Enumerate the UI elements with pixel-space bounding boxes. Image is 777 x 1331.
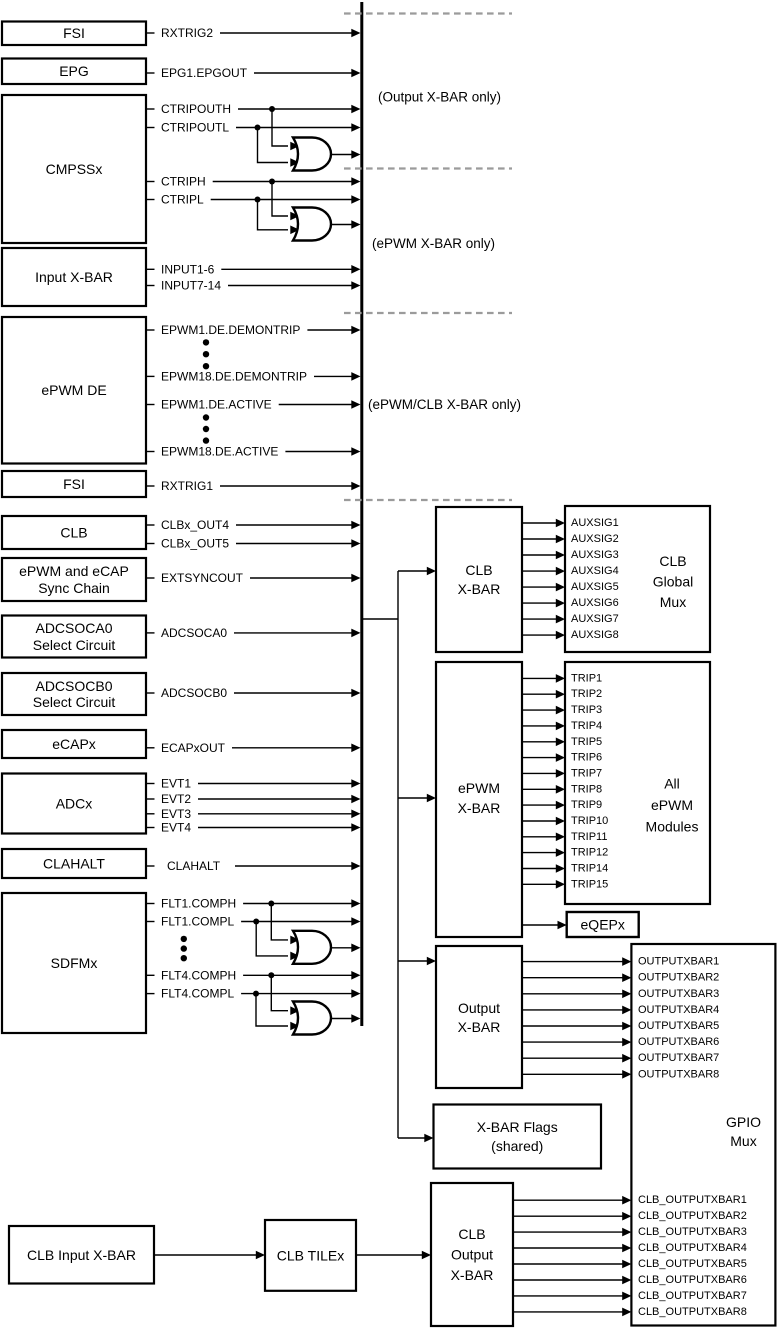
block CLAHALT (2, 849, 146, 878)
svg-text:X-BAR Flags: X-BAR Flags (477, 1119, 558, 1135)
svg-text:TRIP9: TRIP9 (571, 799, 602, 811)
signal EVT4 (146, 821, 361, 835)
block FSI (top) (2, 22, 146, 46)
svg-text:X-BAR: X-BAR (458, 800, 501, 816)
svg-text:AUXSIG3: AUXSIG3 (571, 549, 619, 561)
label TRIP10 (571, 815, 608, 827)
label CLB_OUTPUTXBAR2 (638, 1210, 747, 1222)
label TRIP5 (571, 736, 602, 748)
svg-text:CLB_OUTPUTXBAR8: CLB_OUTPUTXBAR8 (638, 1306, 747, 1318)
svg-text:TRIP3: TRIP3 (571, 704, 602, 716)
branch vertical line (397, 571, 399, 1138)
label OUTPUTXBAR7 (638, 1052, 719, 1064)
svg-text:Input X-BAR: Input X-BAR (35, 269, 113, 285)
label CLB_OUTPUTXBAR5 (638, 1258, 747, 1270)
svg-text:EPWM18.DE.ACTIVE: EPWM18.DE.ACTIVE (161, 445, 278, 459)
signal ADCSOCB0 (146, 686, 361, 700)
wire ePWM X-BAR to TRIP1 (522, 674, 565, 683)
block FSI (second) (2, 471, 146, 497)
signal EVT3 (146, 807, 361, 821)
dashed separator 3 (344, 312, 512, 314)
signal EXTSYNCOUT (146, 571, 361, 585)
wire CLB TILEx to CLB Output X-BAR (356, 1251, 431, 1260)
junction on CTRIPH (269, 179, 275, 185)
signal ADCSOCA0 (146, 626, 361, 640)
wire branch to ePWM X-BAR (398, 794, 436, 803)
svg-text:TRIP12: TRIP12 (571, 847, 608, 859)
label TRIP15 (571, 878, 608, 890)
wire ePWM X-BAR to TRIP8 (522, 785, 565, 794)
label TRIP12 (571, 847, 608, 859)
svg-text:CLB_OUTPUTXBAR2: CLB_OUTPUTXBAR2 (638, 1210, 747, 1222)
wire CLB Output X-BAR to CLB_OUTPUTXBAR5 (513, 1260, 631, 1269)
svg-text:(shared): (shared) (491, 1138, 543, 1154)
wire Output X-BAR to OUTPUTXBAR4 (522, 1006, 631, 1015)
svg-text:FSI: FSI (63, 476, 85, 492)
svg-text:CLB Input X-BAR: CLB Input X-BAR (27, 1247, 136, 1263)
label OUTPUTXBAR5 (638, 1020, 719, 1032)
svg-text:CLB: CLB (659, 553, 686, 569)
svg-text:Mux: Mux (660, 594, 686, 610)
signal FLT1.COMPL (146, 915, 361, 929)
wire ePWM X-BAR to TRIP5 (522, 738, 565, 747)
OR gate 1 (CTRIPOUT) (293, 138, 331, 171)
signal RXTRIG2 (146, 26, 361, 40)
svg-text:CLB_OUTPUTXBAR6: CLB_OUTPUTXBAR6 (638, 1274, 747, 1286)
svg-text:AUXSIG2: AUXSIG2 (571, 533, 619, 545)
wire Output X-BAR to OUTPUTXBAR2 (522, 973, 631, 982)
block ADCx (2, 774, 146, 834)
svg-text:TRIP11: TRIP11 (571, 831, 607, 843)
signal ECAPxOUT (146, 741, 361, 755)
label TRIP11 (571, 831, 607, 843)
block ADCSOCB0 Select Circuit (2, 673, 146, 715)
ellipsis dots (SDFM filters) (181, 936, 187, 962)
wire CTRIPOUTH junction to OR1 input A (272, 109, 300, 150)
dashed separator 2 (344, 167, 512, 169)
wire ePWM X-BAR to TRIP10 (522, 817, 565, 826)
signal RXTRIG1 (146, 479, 361, 493)
block CLB (2, 516, 146, 549)
wire OR2 output to bus (331, 220, 361, 229)
signal FLT4.COMPL (146, 987, 361, 1001)
junction on CTRIPOUTL (255, 125, 261, 131)
label TRIP4 (571, 720, 602, 732)
svg-text:Mux: Mux (730, 1133, 756, 1149)
svg-text:(ePWM/CLB X-BAR only): (ePWM/CLB X-BAR only) (368, 397, 521, 412)
svg-text:SDFMx: SDFMx (51, 955, 98, 971)
block eQEPx (567, 912, 639, 937)
label TRIP9 (571, 799, 602, 811)
wire CTRIPOUTL junction to OR1 input B (258, 128, 300, 167)
label TRIP8 (571, 783, 602, 795)
wire CLB Output X-BAR to CLB_OUTPUTXBAR8 (513, 1308, 631, 1317)
label AUXSIG2 (571, 533, 619, 545)
svg-text:EXTSYNCOUT: EXTSYNCOUT (161, 571, 244, 585)
wire CLB X-BAR to AUXSIG2 (522, 535, 565, 544)
annotation (ePWM X-BAR only) (372, 236, 495, 251)
svg-text:ADCx: ADCx (56, 796, 93, 812)
label OUTPUTXBAR2 (638, 972, 719, 984)
signal EPWM1.DE.DEMONTRIP (146, 323, 361, 337)
wire FLT1.COMPH junction to OR3 input A (271, 904, 299, 945)
label AUXSIG8 (571, 629, 619, 641)
svg-text:Global: Global (653, 574, 693, 590)
svg-text:Sync Chain: Sync Chain (38, 580, 110, 596)
signal EVT2 (146, 792, 361, 806)
block ePWM X-BAR (436, 662, 522, 937)
svg-text:AUXSIG6: AUXSIG6 (571, 597, 619, 609)
svg-text:CLB_OUTPUTXBAR3: CLB_OUTPUTXBAR3 (638, 1226, 747, 1238)
block Input X-BAR (2, 248, 146, 306)
svg-text:EVT2: EVT2 (161, 792, 191, 806)
signal EPG1.EPGOUT (146, 66, 361, 80)
svg-text:FSI: FSI (63, 25, 85, 41)
junction on FLT1.COMPH (268, 901, 274, 907)
svg-text:AUXSIG8: AUXSIG8 (571, 629, 619, 641)
svg-text:TRIP4: TRIP4 (571, 720, 602, 732)
signal EPWM1.DE.ACTIVE (146, 398, 361, 412)
svg-text:OUTPUTXBAR8: OUTPUTXBAR8 (638, 1068, 719, 1080)
wire branch to Output X-BAR (398, 957, 436, 966)
label AUXSIG5 (571, 581, 619, 593)
svg-text:FLT4.COMPH: FLT4.COMPH (161, 968, 236, 982)
block CLB TILEx (265, 1220, 356, 1291)
svg-text:EPWM1.DE.DEMONTRIP: EPWM1.DE.DEMONTRIP (161, 323, 300, 337)
wire OR4 output to bus (331, 1014, 361, 1023)
svg-text:CTRIPOUTL: CTRIPOUTL (161, 121, 229, 135)
wire Output X-BAR to OUTPUTXBAR8 (522, 1070, 631, 1079)
svg-text:OUTPUTXBAR6: OUTPUTXBAR6 (638, 1036, 719, 1048)
svg-text:EPG: EPG (59, 63, 89, 79)
svg-text:TRIP15: TRIP15 (571, 878, 608, 890)
wire CLB Output X-BAR to CLB_OUTPUTXBAR3 (513, 1228, 631, 1237)
signal CTRIPH (146, 175, 361, 189)
wire branch to CLB X-BAR (398, 567, 436, 576)
svg-text:ePWM and eCAP: ePWM and eCAP (19, 563, 129, 579)
svg-text:CLB_OUTPUTXBAR4: CLB_OUTPUTXBAR4 (638, 1242, 747, 1254)
label CLB_OUTPUTXBAR7 (638, 1290, 747, 1302)
svg-text:FLT1.COMPH: FLT1.COMPH (161, 897, 236, 911)
svg-text:CLAHALT: CLAHALT (43, 856, 105, 872)
OR gate 4 (FLT4) (293, 1002, 331, 1035)
svg-text:CLB TILEx: CLB TILEx (277, 1247, 344, 1263)
label AUXSIG1 (571, 517, 619, 529)
signal EPWM18.DE.DEMONTRIP (146, 369, 361, 383)
block ADCSOCA0 Select Circuit (2, 616, 146, 658)
svg-text:eQEPx: eQEPx (581, 917, 625, 933)
block All ePWM Modules (565, 662, 710, 904)
svg-text:(ePWM X-BAR only): (ePWM X-BAR only) (372, 236, 495, 251)
svg-text:OUTPUTXBAR3: OUTPUTXBAR3 (638, 988, 719, 1000)
svg-text:CTRIPH: CTRIPH (161, 175, 206, 189)
block eCAPx (2, 730, 146, 758)
wire ePWM X-BAR to TRIP9 (522, 801, 565, 810)
label CLB_OUTPUTXBAR1 (638, 1194, 747, 1206)
block X-BAR Flags (shared) (434, 1105, 602, 1169)
svg-text:CLB: CLB (60, 525, 87, 541)
wire CLB X-BAR to AUXSIG7 (522, 615, 565, 624)
svg-text:(Output X-BAR only): (Output X-BAR only) (378, 90, 501, 105)
svg-text:X-BAR: X-BAR (451, 1267, 494, 1283)
wire CLB X-BAR to AUXSIG5 (522, 583, 565, 592)
svg-text:ePWM: ePWM (651, 797, 693, 813)
annotation (ePWM/CLB X-BAR only) (368, 397, 521, 412)
wire ePWM X-BAR to TRIP12 (522, 848, 565, 857)
wire ePWM X-BAR to TRIP14 (522, 864, 565, 873)
svg-text:RXTRIG2: RXTRIG2 (161, 26, 213, 40)
svg-text:Select Circuit: Select Circuit (33, 637, 116, 653)
svg-text:OUTPUTXBAR5: OUTPUTXBAR5 (638, 1020, 719, 1032)
block ePWM DE (2, 317, 146, 464)
block CMPSSx (2, 95, 146, 243)
svg-text:OUTPUTXBAR4: OUTPUTXBAR4 (638, 1004, 719, 1016)
label TRIP14 (571, 863, 608, 875)
input signal bus (vertical trunk) (360, 2, 363, 1026)
svg-text:EVT1: EVT1 (161, 777, 191, 791)
block CLB Global Mux (565, 506, 710, 652)
wire ePWM X-BAR to TRIP3 (522, 706, 565, 715)
wire ePWM X-BAR to TRIP11 (522, 833, 565, 842)
wire CTRIPL junction to OR2 input B (258, 200, 300, 235)
signal CLBx_OUT5 (146, 537, 361, 551)
svg-text:OUTPUTXBAR1: OUTPUTXBAR1 (638, 956, 719, 968)
signal EPWM18.DE.ACTIVE (146, 445, 361, 459)
label AUXSIG4 (571, 565, 619, 577)
svg-text:AUXSIG1: AUXSIG1 (571, 517, 619, 529)
label OUTPUTXBAR6 (638, 1036, 719, 1048)
svg-text:ePWM: ePWM (458, 780, 500, 796)
svg-text:eCAPx: eCAPx (52, 736, 96, 752)
wire ePWM X-BAR to TRIP15 (522, 880, 565, 889)
wire Output X-BAR to OUTPUTXBAR1 (522, 957, 631, 966)
wire branch to X-BAR Flags (398, 1134, 434, 1143)
wire ePWM X-BAR to TRIP7 (522, 769, 565, 778)
svg-text:AUXSIG5: AUXSIG5 (571, 581, 619, 593)
wire ePWM X-BAR to TRIP2 (522, 690, 565, 699)
svg-text:Modules: Modules (646, 819, 699, 835)
svg-text:TRIP1: TRIP1 (571, 672, 602, 684)
block CLB Output X-BAR (431, 1183, 513, 1326)
OR gate 3 (FLT1) (293, 931, 331, 964)
svg-text:Output: Output (451, 1247, 493, 1263)
signal CTRIPOUTL (146, 121, 361, 135)
wire Output X-BAR to OUTPUTXBAR5 (522, 1022, 631, 1031)
ellipsis dots (DEMONTRIP group) (203, 339, 209, 369)
label TRIP3 (571, 704, 602, 716)
label OUTPUTXBAR4 (638, 1004, 719, 1016)
wire bus tap to branch line (363, 618, 398, 620)
svg-text:RXTRIG1: RXTRIG1 (161, 479, 213, 493)
wire CTRIPH junction to OR2 input A (272, 182, 300, 221)
svg-text:INPUT7-14: INPUT7-14 (161, 279, 221, 293)
svg-text:CLB_OUTPUTXBAR1: CLB_OUTPUTXBAR1 (638, 1194, 747, 1206)
label AUXSIG7 (571, 613, 619, 625)
svg-text:All: All (664, 776, 680, 792)
signal FLT4.COMPH (146, 968, 361, 982)
wire ePWM X-BAR to eQEPx (522, 921, 567, 930)
wire OR3 output to bus (331, 944, 361, 953)
wire CLB X-BAR to AUXSIG4 (522, 567, 565, 576)
svg-text:FLT4.COMPL: FLT4.COMPL (161, 987, 234, 1001)
svg-text:X-BAR: X-BAR (458, 581, 501, 597)
svg-text:AUXSIG7: AUXSIG7 (571, 613, 619, 625)
label OUTPUTXBAR3 (638, 988, 719, 1000)
svg-text:TRIP7: TRIP7 (571, 767, 602, 779)
svg-text:ADCSOCB0: ADCSOCB0 (35, 678, 112, 694)
svg-text:X-BAR: X-BAR (458, 1019, 501, 1035)
svg-text:EVT3: EVT3 (161, 807, 191, 821)
svg-text:FLT1.COMPL: FLT1.COMPL (161, 915, 234, 929)
svg-text:GPIO: GPIO (726, 1114, 761, 1130)
wire CLB Output X-BAR to CLB_OUTPUTXBAR1 (513, 1196, 631, 1205)
wire CLB X-BAR to AUXSIG1 (522, 519, 565, 528)
wire CLB Output X-BAR to CLB_OUTPUTXBAR7 (513, 1292, 631, 1301)
OR gate 2 (CTRIP) (293, 208, 331, 241)
label TRIP1 (571, 672, 602, 684)
svg-text:CTRIPOUTH: CTRIPOUTH (161, 102, 231, 116)
dashed separator 1 (344, 12, 512, 14)
block Output X-BAR (436, 946, 522, 1088)
wire CLB Input X-BAR to CLB TILEx (154, 1251, 265, 1260)
svg-text:TRIP2: TRIP2 (571, 688, 602, 700)
svg-text:ADCSOCB0: ADCSOCB0 (161, 686, 227, 700)
wire CLB Output X-BAR to CLB_OUTPUTXBAR2 (513, 1212, 631, 1221)
wire FLT4.COMPH junction to OR4 input A (271, 975, 299, 1015)
wire CLB X-BAR to AUXSIG8 (522, 631, 565, 640)
signal CLAHALT (146, 859, 361, 873)
signal INPUT1-6 (146, 262, 361, 276)
wire CLB X-BAR to AUXSIG6 (522, 599, 565, 608)
wire Output X-BAR to OUTPUTXBAR3 (522, 990, 631, 999)
block CLB Input X-BAR (9, 1226, 154, 1284)
svg-text:CMPSSx: CMPSSx (46, 161, 103, 177)
svg-text:ePWM DE: ePWM DE (41, 382, 106, 398)
wire ePWM X-BAR to TRIP4 (522, 722, 565, 731)
svg-text:Output: Output (458, 1000, 500, 1016)
signal EVT1 (146, 777, 361, 791)
svg-text:EVT4: EVT4 (161, 821, 191, 835)
annotation (Output X-BAR only) (378, 90, 501, 105)
label OUTPUTXBAR1 (638, 956, 719, 968)
label TRIP2 (571, 688, 602, 700)
svg-text:CLB: CLB (465, 562, 492, 578)
svg-text:AUXSIG4: AUXSIG4 (571, 565, 619, 577)
svg-text:TRIP8: TRIP8 (571, 783, 602, 795)
wire ePWM X-BAR to TRIP6 (522, 753, 565, 762)
svg-text:Select Circuit: Select Circuit (33, 694, 116, 710)
wire FLT1.COMPL junction to OR3 input B (256, 922, 299, 961)
label TRIP7 (571, 767, 602, 779)
block EPG (2, 59, 146, 85)
wire CLB Output X-BAR to CLB_OUTPUTXBAR6 (513, 1276, 631, 1285)
wire CLB X-BAR to AUXSIG3 (522, 551, 565, 560)
signal INPUT7-14 (146, 279, 361, 293)
block SDFMx (2, 893, 146, 1033)
label CLB_OUTPUTXBAR6 (638, 1274, 747, 1286)
svg-text:CLBx_OUT4: CLBx_OUT4 (161, 518, 229, 532)
svg-text:CLB: CLB (458, 1226, 485, 1242)
svg-text:EPWM18.DE.DEMONTRIP: EPWM18.DE.DEMONTRIP (161, 369, 307, 383)
junction on CTRIPL (255, 197, 261, 203)
svg-text:TRIP10: TRIP10 (571, 815, 608, 827)
svg-text:EPG1.EPGOUT: EPG1.EPGOUT (161, 66, 248, 80)
junction on FLT4.COMPH (268, 972, 274, 978)
wire FLT4.COMPL junction to OR4 input B (256, 994, 300, 1031)
label TRIP6 (571, 752, 602, 764)
label CLB_OUTPUTXBAR4 (638, 1242, 747, 1254)
dashed separator 4 (344, 499, 512, 501)
svg-text:CLAHALT: CLAHALT (167, 859, 221, 873)
wire Output X-BAR to OUTPUTXBAR7 (522, 1054, 631, 1063)
label OUTPUTXBAR8 (638, 1068, 719, 1080)
block GPIO Mux (631, 944, 775, 1326)
svg-text:CLB_OUTPUTXBAR5: CLB_OUTPUTXBAR5 (638, 1258, 747, 1270)
wire Output X-BAR to OUTPUTXBAR6 (522, 1038, 631, 1047)
svg-text:EPWM1.DE.ACTIVE: EPWM1.DE.ACTIVE (161, 398, 272, 412)
signal FLT1.COMPH (146, 897, 361, 911)
svg-text:CTRIPL: CTRIPL (161, 193, 204, 207)
svg-text:ADCSOCA0: ADCSOCA0 (161, 626, 227, 640)
signal CLBx_OUT4 (146, 518, 361, 532)
svg-text:CLB_OUTPUTXBAR7: CLB_OUTPUTXBAR7 (638, 1290, 747, 1302)
label CLB_OUTPUTXBAR3 (638, 1226, 747, 1238)
svg-text:ADCSOCA0: ADCSOCA0 (35, 620, 112, 636)
wire OR1 output to bus (331, 150, 361, 159)
ellipsis dots (ACTIVE group) (203, 414, 209, 444)
svg-text:OUTPUTXBAR2: OUTPUTXBAR2 (638, 972, 719, 984)
label AUXSIG3 (571, 549, 619, 561)
label AUXSIG6 (571, 597, 619, 609)
svg-text:TRIP14: TRIP14 (571, 863, 608, 875)
svg-text:OUTPUTXBAR7: OUTPUTXBAR7 (638, 1052, 719, 1064)
signal CTRIPL (146, 193, 361, 207)
svg-text:TRIP5: TRIP5 (571, 736, 602, 748)
wire CLB Output X-BAR to CLB_OUTPUTXBAR4 (513, 1244, 631, 1253)
block ePWM and eCAP Sync Chain (2, 558, 146, 601)
svg-text:CLBx_OUT5: CLBx_OUT5 (161, 537, 229, 551)
svg-text:INPUT1-6: INPUT1-6 (161, 262, 215, 276)
junction on FLT4.COMPL (253, 991, 259, 997)
junction on CTRIPOUTH (269, 106, 275, 112)
signal CTRIPOUTH (146, 102, 361, 116)
label CLB_OUTPUTXBAR8 (638, 1306, 747, 1318)
svg-text:TRIP6: TRIP6 (571, 752, 602, 764)
svg-text:ECAPxOUT: ECAPxOUT (161, 741, 226, 755)
block CLB X-BAR (436, 507, 522, 652)
junction on FLT1.COMPL (253, 919, 259, 925)
